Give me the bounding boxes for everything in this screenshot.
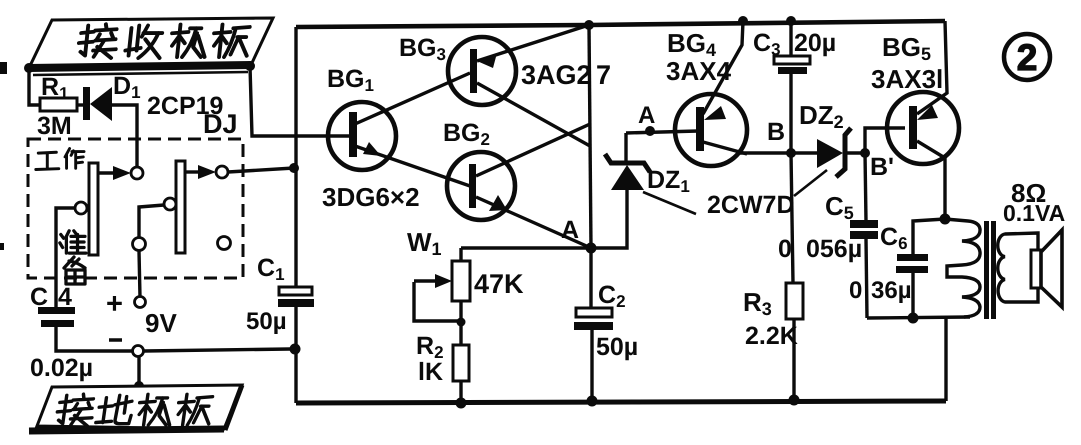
wire transformer top loop to C6 bbox=[913, 219, 945, 254]
wire left bar contact to C4 bbox=[56, 208, 75, 308]
wire C5 to bottom run bbox=[866, 239, 867, 318]
node dot BG5 collector / transformer bbox=[940, 214, 951, 225]
svg-text:50µ: 50µ bbox=[596, 333, 638, 361]
relay left armature bar bbox=[89, 163, 98, 255]
svg-text:+: + bbox=[106, 288, 123, 320]
wire BG4 collector to DZ2 bbox=[740, 151, 818, 154]
wire left armature to contact w/ arrow bbox=[98, 171, 116, 174]
wire right bar contact down to battery plus bbox=[139, 205, 164, 238]
transistor BG2 collector lead bbox=[476, 124, 590, 176]
ground plate 接地极板 parallelogram bbox=[37, 385, 242, 429]
transistor BG4 base bar bbox=[696, 107, 704, 151]
node dot plate right corner bbox=[245, 61, 255, 71]
contact circle on right bar bbox=[164, 198, 176, 210]
node dot on ground plate bbox=[134, 381, 144, 391]
zener DZ1 cathode bar bbox=[605, 154, 650, 172]
svg-text:3AX4: 3AX4 bbox=[666, 56, 732, 86]
transistor BG3 circle bbox=[448, 37, 516, 105]
wire node A2 to BG4 base bbox=[626, 131, 698, 133]
pointer line 2CW7D to DZ2 bbox=[794, 170, 827, 196]
svg-text:20µ: 20µ bbox=[794, 29, 836, 57]
node dot C3 rail bbox=[786, 16, 796, 26]
wire W1 bottom to R2 bbox=[459, 301, 462, 345]
node A dot bbox=[586, 243, 597, 254]
wire minus terminal to C1 node bbox=[144, 349, 290, 351]
pointer line 2CW7D to DZ1 bbox=[643, 192, 696, 214]
svg-text:0.02µ: 0.02µ bbox=[30, 354, 93, 382]
wire B' up to BG5 base bbox=[865, 128, 905, 153]
wire R2 to rail bbox=[459, 381, 462, 403]
wire bottom ground rail bbox=[296, 401, 946, 403]
svg-text:B': B' bbox=[870, 153, 894, 181]
scan speck left margin 2 bbox=[0, 243, 4, 250]
svg-text:2.2K: 2.2K bbox=[745, 322, 798, 350]
svg-text:7: 7 bbox=[596, 60, 611, 90]
node dot left edge DJ feed bbox=[289, 163, 299, 173]
wire DZ2 to B' bbox=[846, 151, 865, 154]
badge circled 2 bbox=[1004, 34, 1050, 80]
wire B' down to C5 bbox=[865, 153, 866, 221]
svg-text:B: B bbox=[767, 118, 785, 146]
node dot top rail mid bbox=[584, 20, 594, 30]
svg-text:0.1VA: 0.1VA bbox=[1003, 200, 1065, 226]
contact circle on left bar bbox=[75, 202, 87, 214]
transistor BG5 base bar bbox=[909, 106, 917, 149]
svg-text:DJ: DJ bbox=[203, 109, 238, 139]
svg-text:3AG2: 3AG2 bbox=[521, 60, 592, 90]
transistor BG5 circle bbox=[887, 92, 959, 164]
svg-text:4: 4 bbox=[58, 283, 72, 311]
wire left edge upper (to C1) bbox=[294, 27, 297, 288]
svg-text:056µ: 056µ bbox=[806, 235, 862, 263]
transistor BG5 collector lead bbox=[917, 141, 945, 219]
svg-text:2CW7D: 2CW7D bbox=[707, 191, 795, 219]
capacitor C2 plates bbox=[576, 308, 612, 317]
wire plate right corner to BG1 base bbox=[250, 66, 352, 136]
transistor BG4 collector lead bbox=[703, 142, 747, 154]
wire R3 to rail bbox=[792, 319, 795, 400]
text 接地极板 ground plate bbox=[55, 394, 95, 426]
potentiometer W1 wiper arrow bbox=[414, 279, 438, 282]
capacitor C1 plates bbox=[279, 287, 312, 295]
diode D1 triangle bbox=[90, 87, 112, 121]
wire C2 to rail bbox=[590, 330, 593, 401]
transistor BG1 base bar bbox=[349, 112, 357, 157]
transistor BG3 collector lead bbox=[477, 83, 590, 146]
transistor BG2 emitter lead w/ arrow bbox=[476, 197, 591, 248]
potentiometer W1 wiper return wire bbox=[414, 282, 461, 321]
transistor BG5 emitter lead w/ inward arrow (PNP) bbox=[917, 21, 947, 114]
junction dot on left edge bbox=[290, 344, 301, 355]
wire node A down to C2 bbox=[589, 248, 592, 309]
wire mid vertical bbox=[589, 25, 591, 248]
node dot B' bbox=[860, 148, 870, 158]
zener DZ2 cathode bar bbox=[836, 128, 851, 177]
text 备 bbox=[64, 257, 85, 284]
capacitor C3 plates bbox=[774, 56, 810, 64]
relay right armature bar bbox=[176, 161, 185, 253]
node A2 dot bbox=[645, 126, 655, 136]
transformer T1 secondary winding loop bbox=[998, 233, 1038, 302]
battery plus terminal bbox=[135, 297, 146, 308]
transistor BG2 circle bbox=[447, 152, 515, 220]
transformer T1 primary winding bbox=[945, 219, 980, 317]
transformer T1 core bars bbox=[984, 221, 989, 319]
transistor BG4 emitter lead w/ inward arrow (PNP) bbox=[703, 21, 743, 114]
svg-text:3DG6×2: 3DG6×2 bbox=[322, 182, 420, 212]
wire C4 to ground run bbox=[56, 327, 133, 351]
relay DJ dashed box bbox=[28, 139, 243, 278]
capacitor C5 plates bbox=[850, 220, 878, 228]
speaker body bbox=[1031, 250, 1041, 288]
wire battery minus to ground plate bbox=[137, 357, 140, 385]
wire C3 to B node bbox=[789, 74, 792, 153]
contact circle right 工作 bbox=[216, 166, 228, 178]
svg-text:50µ: 50µ bbox=[246, 308, 287, 335]
svg-text:3M: 3M bbox=[37, 112, 72, 140]
battery minus terminal bbox=[133, 346, 144, 357]
node dot R2 rail bbox=[456, 398, 467, 409]
wire C3 top lead bbox=[789, 21, 792, 57]
svg-text:lK: lK bbox=[418, 358, 443, 386]
text 准 bbox=[60, 231, 86, 253]
wire left edge lower (C1 to bottom rail) bbox=[294, 306, 297, 403]
wire B node down to R3 bbox=[791, 153, 793, 283]
wire R1 to D1 bbox=[77, 103, 86, 106]
zener DZ2 triangle bbox=[817, 139, 843, 168]
transistor BG2 base bar bbox=[469, 164, 476, 208]
receiving plate 接收极板 parallelogram bbox=[29, 18, 273, 68]
wire D1 to DJ contact bbox=[111, 105, 137, 167]
node dot R3 rail bbox=[789, 395, 800, 406]
node dot plate left corner bbox=[24, 63, 34, 73]
svg-text:0: 0 bbox=[849, 277, 862, 304]
svg-text:0: 0 bbox=[778, 235, 792, 263]
transistor BG4 circle bbox=[675, 94, 747, 166]
resistor R3 box bbox=[786, 283, 803, 319]
node dot W1/R2 bbox=[457, 318, 466, 327]
node dot B bbox=[786, 148, 796, 158]
wire plate left corner down to R1 bbox=[29, 68, 40, 105]
svg-text:A: A bbox=[638, 102, 655, 129]
capacitor C6 plates bbox=[897, 254, 928, 261]
wire top supply rail bbox=[296, 21, 945, 27]
wire right contact to main box left edge bbox=[228, 168, 294, 172]
svg-text:47K: 47K bbox=[474, 269, 524, 299]
node dot C2 rail bbox=[587, 396, 598, 407]
resistor R1 box bbox=[40, 98, 77, 111]
wire node A horizontal to W1 bbox=[461, 246, 591, 249]
transistor BG3 base bar bbox=[470, 49, 477, 93]
connector circle in relay bbox=[133, 238, 146, 251]
contact circle 工作 left bbox=[131, 167, 143, 179]
speaker horn bbox=[1041, 230, 1062, 307]
svg-text:A: A bbox=[561, 216, 579, 244]
label battery minus bbox=[109, 338, 122, 342]
diode D1 cathode bar bbox=[83, 87, 90, 120]
svg-text:C: C bbox=[30, 283, 48, 311]
text 接收极板 receiving plate bbox=[77, 24, 118, 58]
text 工作 bbox=[36, 152, 59, 169]
wire bottom run C5 to transformer bbox=[867, 317, 970, 318]
resistor R2 box bbox=[453, 345, 469, 381]
scan speck left margin bbox=[0, 62, 7, 74]
node dot BG4 emitter rail bbox=[738, 16, 748, 26]
wire node A to DZ1 corner bbox=[591, 190, 627, 248]
wire connector to battery plus bbox=[139, 251, 140, 297]
wire node A2 down to DZ1 bbox=[624, 133, 627, 161]
zener DZ1 triangle bbox=[611, 165, 644, 190]
transistor BG1 circle bbox=[328, 102, 396, 170]
transistor BG1 emitter lead w/ arrow bbox=[355, 146, 470, 186]
svg-text:2: 2 bbox=[1017, 37, 1038, 78]
transistor BG1 collector lead bbox=[355, 73, 470, 124]
capacitor C4 plates bbox=[38, 307, 75, 314]
wire C6 to bottom node bbox=[911, 273, 914, 318]
svg-text:9V: 9V bbox=[145, 308, 177, 338]
svg-text:3AX3l: 3AX3l bbox=[871, 64, 943, 94]
wire right armature to contact w/ arrow bbox=[185, 170, 201, 173]
node dot C6 bottom bbox=[908, 313, 919, 324]
unused contact circle bbox=[218, 237, 231, 250]
svg-text:36µ: 36µ bbox=[871, 277, 912, 304]
potentiometer W1 top lead bbox=[459, 248, 462, 261]
potentiometer W1 box bbox=[452, 261, 470, 301]
transistor BG3 emitter lead w/ inward arrow (PNP) bbox=[477, 25, 589, 61]
wire right edge bottom (rail up to transformer bottom) bbox=[944, 318, 947, 401]
